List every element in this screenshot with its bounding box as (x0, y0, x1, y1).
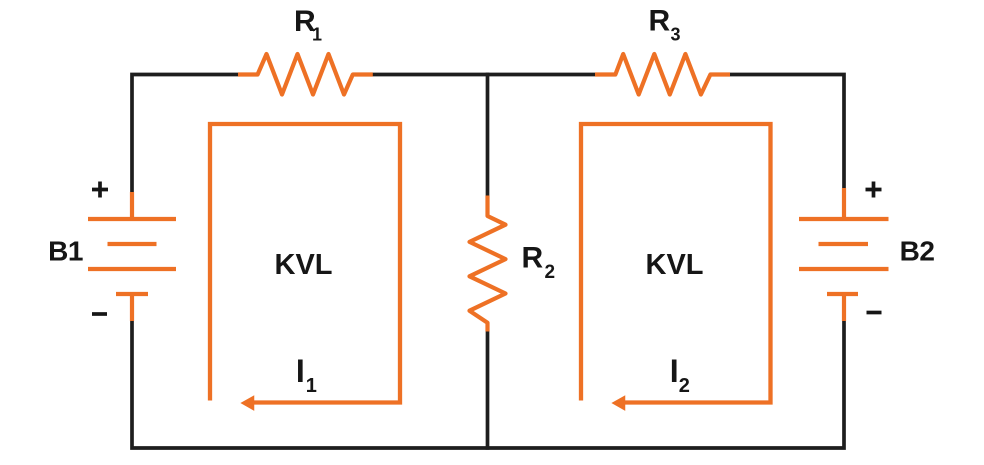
svg-text:2: 2 (679, 375, 690, 397)
wire: top-right (R3 to right rail down to B2 +) (730, 75, 845, 191)
current arrow I1 (242, 397, 254, 410)
svg-text:1: 1 (312, 25, 322, 45)
svg-text:KVL: KVL (646, 249, 704, 281)
svg-text:B2: B2 (900, 236, 935, 267)
resistor R3 (595, 54, 730, 95)
wire: top-left (left rail top + top rail to R1) (132, 75, 239, 195)
svg-text:R: R (522, 242, 544, 275)
wire: middle branch top (node to R2) (486, 73, 490, 196)
resistor R2 (470, 196, 506, 332)
plus terminal B2 (866, 182, 882, 198)
svg-text:2: 2 (545, 262, 556, 283)
svg-text:I: I (296, 353, 305, 389)
KVL loop 2 (mesh current path) (581, 124, 771, 403)
wire: middle branch bottom (R2 to bottom rail) (486, 331, 490, 450)
battery B2 (799, 188, 889, 321)
minus terminal B1 (92, 312, 107, 316)
resistor R1 (238, 54, 373, 95)
wire: top middle (R1 to R3 through node above R2) (373, 73, 596, 77)
plus terminal B1 (92, 182, 108, 198)
svg-text:B1: B1 (48, 236, 83, 267)
svg-text:KVL: KVL (275, 249, 333, 281)
svg-text:1: 1 (306, 375, 317, 397)
svg-text:I: I (670, 353, 679, 389)
wire: left rail bottom (B1 - to bottom rail) (132, 321, 488, 448)
svg-text:R: R (649, 5, 671, 38)
battery B1 (88, 192, 176, 321)
minus terminal B2 (867, 311, 882, 315)
wire: bottom rail right half + right rail bottom (B2 - down) (488, 321, 845, 448)
svg-text:3: 3 (671, 25, 681, 45)
KVL loop 1 (mesh current path) (210, 124, 400, 403)
current arrow I2 (613, 397, 625, 410)
